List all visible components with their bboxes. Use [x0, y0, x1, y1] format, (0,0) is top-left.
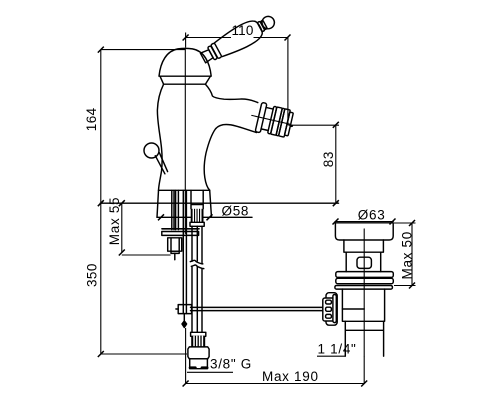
handle ball collar ring [257, 21, 265, 32]
nozzle aerator group [248, 101, 294, 139]
threaded shank block [191, 209, 204, 223]
tick Max50 top [409, 220, 415, 226]
spout underside / body armpit curve [204, 124, 256, 190]
svg-text:Ø58: Ø58 [222, 204, 250, 219]
drain seal ring 2 [336, 278, 394, 283]
compression fitting collar [191, 332, 206, 336]
nozzle ring 3 [271, 107, 283, 135]
drain flange Ø63 [335, 223, 393, 240]
handle ball [260, 14, 277, 31]
tick Max55 top [119, 200, 125, 206]
rod clamp block [178, 305, 191, 314]
nozzle tip [285, 112, 294, 136]
pivot nut bar [333, 295, 336, 323]
dim Max190 line [186, 328, 365, 384]
node nozzle tip junction dot [290, 125, 293, 127]
mounting flange washer plate [162, 232, 199, 236]
handle assembly [198, 10, 279, 68]
svg-text:164: 164 [84, 107, 99, 131]
drain centerline [363, 229, 365, 356]
drain tailpiece [345, 321, 383, 356]
lift rod stub below nut [174, 253, 176, 259]
dim 110 tick left [183, 35, 189, 41]
svg-text:Max 190: Max 190 [262, 369, 319, 384]
handle collar ring 1 [207, 46, 217, 60]
1 1/4 underline joins tailpiece bottom [317, 355, 345, 357]
drain pivot interior line [342, 308, 364, 310]
dim Max50 vertical [394, 223, 416, 286]
supply pipe [192, 226, 202, 332]
dim 110 line [186, 33, 288, 126]
fitting lower cylinder [190, 359, 208, 369]
faucet centerline [184, 49, 186, 234]
pop-up knob [144, 143, 159, 158]
nozzle flange ring [255, 102, 267, 132]
drain lower body [342, 289, 384, 321]
handle lever body [213, 17, 265, 59]
drain upper body [346, 252, 381, 271]
tick 350 bottom [98, 351, 104, 357]
dim 164-350 main vertical [101, 50, 187, 354]
svg-text:1 1/4": 1 1/4" [318, 341, 357, 356]
nozzle ring 2 [268, 106, 277, 134]
faucet body outline left [157, 84, 163, 190]
mounting nut [168, 238, 182, 251]
tick deck [98, 200, 104, 206]
rod pin below clamp [183, 314, 185, 321]
tick Max50 bottom [409, 283, 415, 289]
svg-text:350: 350 [85, 263, 100, 287]
rod clamp left stub [176, 308, 178, 310]
drain seal ring 3 [335, 286, 393, 290]
compression hex nut [188, 347, 209, 359]
svg-text:Ø63: Ø63 [358, 208, 386, 223]
dim Ø63 line [335, 221, 394, 223]
wire deck line [100, 202, 338, 204]
faucet body right / spout top [205, 84, 257, 102]
pivot nut back body [326, 293, 337, 326]
tick 83 bottom [333, 200, 339, 206]
rod guide tube lines below body [172, 191, 179, 230]
compression fitting threads [191, 336, 205, 347]
svg-text:Max 55: Max 55 [107, 197, 122, 245]
tick Max55 bottom [119, 250, 125, 256]
pivot nut knurl 1 [326, 300, 332, 304]
mounting flange washer top line [162, 228, 199, 230]
svg-text:Max 50: Max 50 [400, 231, 415, 279]
nut bottom step [171, 251, 179, 253]
tick 164 top [98, 47, 104, 53]
nozzle ring 5 [279, 109, 291, 137]
shank collar [190, 222, 204, 226]
horizontal connecting rod [191, 307, 323, 310]
tick Ø63 left [333, 219, 339, 225]
drain seal ring 1 [336, 272, 394, 278]
nozzle axis line [252, 115, 290, 124]
tick Max190 right [361, 381, 367, 387]
3/8 G underline [187, 371, 233, 373]
tick Max190 left [183, 381, 189, 387]
lift rod pair [183, 191, 186, 314]
threaded shank top [191, 191, 203, 209]
handle collar ring 2 [211, 43, 222, 59]
drain neck [344, 240, 384, 252]
nozzle extension to 83 [289, 124, 340, 126]
pivot nut knurl 2 [326, 307, 332, 311]
tick Ø63 right [390, 219, 396, 225]
nozzle neck [261, 107, 273, 130]
dim 110 tick right [285, 35, 291, 41]
pipe break symbol [190, 260, 204, 268]
tick 83 top [333, 122, 339, 128]
dim 83 vertical [335, 125, 337, 203]
pivot nut front plate [323, 298, 336, 321]
pivot nut knurl 3 [326, 314, 332, 318]
svg-text:83: 83 [321, 151, 336, 167]
dim Ø58 ticks [158, 214, 164, 220]
handle stem [200, 49, 213, 63]
faucet dome cap [159, 48, 211, 76]
dim Max55 vertical [122, 203, 171, 255]
rod pointed tip [182, 321, 187, 328]
svg-text:3/8" G: 3/8" G [210, 357, 252, 372]
dome collar [160, 76, 210, 84]
svg-text:110: 110 [232, 23, 254, 38]
faucet base escutcheon [157, 190, 212, 217]
pop-up knob lever [155, 153, 167, 174]
drain square hole [357, 257, 371, 268]
nozzle ring 4 [276, 108, 285, 136]
base bottom / Ø58 leader line [157, 216, 252, 218]
